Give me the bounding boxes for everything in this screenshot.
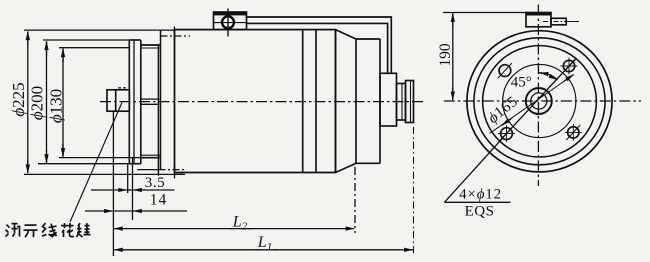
svg-text:L1: L1	[257, 234, 272, 253]
extension line 3.5 left	[127, 165, 129, 194]
extension line L1 right	[413, 127, 415, 255]
bolt hole upper-right	[563, 60, 574, 71]
vertical centerline	[537, 5, 539, 187]
svg-text:ϕ225: ϕ225	[9, 82, 28, 116]
phi165 leader	[490, 75, 574, 134]
bearing boss block	[380, 73, 397, 126]
flange disc plate	[128, 40, 130, 164]
leader line to spline	[70, 103, 122, 223]
char kai	[24, 225, 38, 237]
taper start vertical	[335, 30, 337, 173]
hub circle	[503, 64, 576, 137]
second circle	[474, 38, 605, 165]
dimension L1	[255, 249, 277, 251]
dimension 190	[443, 12, 527, 14]
svg-text:ϕ165: ϕ165	[485, 93, 522, 127]
extension line 3.5/14 right	[132, 157, 134, 220]
svg-text:ϕ130: ϕ130	[46, 89, 65, 123]
diagonal bolt axis line	[500, 59, 576, 141]
dimension L2	[230, 228, 252, 230]
terminal box (end view)	[526, 13, 551, 27]
bolt hole lower-right	[568, 127, 579, 138]
terminal bolt centerline vertical	[227, 9, 229, 37]
phantom line top	[161, 35, 191, 37]
label jiankaixianhuajian (hand-drawn CJK strokes)	[6, 223, 91, 237]
horizontal centerline	[444, 100, 641, 102]
dimension phi130	[59, 47, 129, 49]
centering tick top	[174, 27, 176, 41]
end-bell taper top	[336, 30, 381, 39]
end-bell right edge	[379, 39, 381, 163]
side view centerline	[100, 101, 424, 103]
adapter ring vertical	[160, 31, 162, 170]
wire lead outer	[247, 17, 392, 73]
phantom line bottom	[137, 169, 158, 171]
outer circle	[467, 31, 612, 172]
svg-text:45°: 45°	[511, 74, 532, 90]
third circle	[483, 46, 597, 157]
svg-text:190: 190	[437, 43, 454, 67]
shaft end disc	[406, 81, 414, 123]
shaft step block	[397, 84, 406, 121]
extension line L2 right	[354, 167, 356, 233]
char hua	[61, 223, 74, 237]
centering tick bottom	[174, 166, 176, 179]
svg-text:ϕ200: ϕ200	[27, 86, 46, 120]
end-bell face vertical	[355, 39, 357, 163]
terminal bolt circle	[222, 16, 234, 28]
4xphi12 leader	[444, 139, 502, 203]
end-bell taper bottom	[336, 163, 381, 172]
char xian	[42, 223, 57, 237]
char jian2	[77, 223, 91, 237]
terminal box (side view)	[214, 12, 247, 30]
svg-text:L2: L2	[232, 214, 248, 233]
shaft bore inner	[531, 93, 547, 109]
hub cylinder	[157, 45, 159, 176]
body section line 2	[315, 30, 317, 173]
dimension 14	[113, 210, 132, 212]
motor main body	[175, 30, 336, 173]
45 degree arc	[539, 73, 558, 80]
svg-text:EQS: EQS	[465, 204, 495, 220]
svg-text:4×ϕ12: 4×ϕ12	[459, 187, 502, 203]
body section line 1	[302, 30, 304, 173]
hub bore lines	[141, 98, 160, 100]
svg-text:3.5: 3.5	[145, 175, 166, 191]
dimension 3.5	[128, 189, 133, 191]
spline shaft	[107, 90, 129, 111]
wire lead inner	[247, 23, 388, 73]
dimension phi225	[24, 29, 175, 31]
bolt hole upper-left	[499, 65, 511, 77]
dimension phi200	[43, 39, 129, 41]
shaft bore outer	[526, 88, 552, 114]
extension line left (flange face)	[112, 112, 114, 256]
bolt hole lower-left	[501, 128, 513, 140]
svg-text:14: 14	[150, 192, 168, 209]
char jian1	[6, 224, 20, 237]
cable gland	[551, 18, 566, 25]
